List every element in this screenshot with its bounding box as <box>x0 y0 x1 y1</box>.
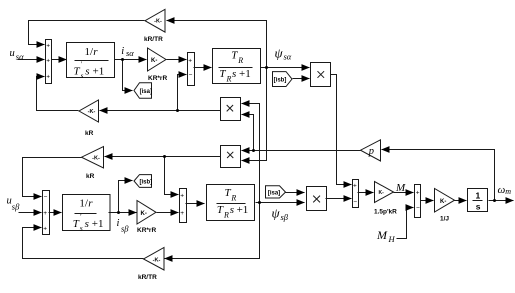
svg-text:[isa]: [isa] <box>268 190 280 196</box>
junction node psi_sb <box>258 201 261 204</box>
wire TF1a output i_sa <box>115 59 147 61</box>
from tag isa <box>266 186 286 198</box>
svg-text:K-: K- <box>151 58 157 64</box>
wire psi_sb up to upper mult <box>242 104 260 203</box>
text upper mult cross <box>227 105 233 111</box>
svg-text:r: r <box>88 197 93 209</box>
svg-text:R: R <box>230 194 236 203</box>
svg-text:s: s <box>85 66 89 78</box>
transfer function TRb <box>207 185 255 221</box>
wire branch to sum2a minus input <box>178 75 187 111</box>
svg-text:R: R <box>226 75 232 84</box>
svg-text:T: T <box>231 49 238 61</box>
junction node omega_m <box>493 199 496 202</box>
svg-text:kR/TR: kR/TR <box>138 274 157 281</box>
multiplier mult1 <box>311 63 331 87</box>
wire i_sa branch down to goto isa <box>123 61 133 91</box>
junction node p omega <box>252 149 255 152</box>
svg-text:s: s <box>476 202 481 212</box>
wire KR*rR beta output to sum2b plus <box>157 212 179 214</box>
wire sum1a output <box>52 59 67 61</box>
junction node i_sa <box>121 58 124 61</box>
junction node lower mult out <box>163 155 166 158</box>
svg-text:K-: K- <box>440 199 446 205</box>
multiplier upper cross <box>221 98 241 121</box>
svg-text:+: + <box>46 58 50 65</box>
wire p omega branch up to upper mult <box>242 115 254 151</box>
svg-text:1/J: 1/J <box>440 216 449 223</box>
wire M_H load input to summech minus <box>397 208 414 239</box>
wire psi_sa output to mult1 <box>261 67 310 69</box>
wire from isb tag to mult1 <box>293 78 310 80</box>
transfer function TF1a <box>67 43 115 78</box>
svg-text:[isa]: [isa] <box>140 89 152 95</box>
sum block sum1a <box>46 40 52 84</box>
wire torque M to summech plus <box>394 192 414 194</box>
goto tag isb <box>134 175 152 188</box>
wire p omega to lower mult <box>242 150 361 152</box>
multiplier lower cross <box>221 146 241 168</box>
svg-text:H: H <box>388 234 396 244</box>
wire psi_sa down to lower mult <box>242 68 267 161</box>
wire TF1b output i_sb <box>109 212 137 214</box>
svg-text:−: − <box>416 205 420 212</box>
svg-text:T: T <box>74 66 81 78</box>
svg-text:−: − <box>44 194 48 201</box>
text lower mult cross <box>227 152 233 158</box>
gain KR*rR beta triangle <box>137 201 156 225</box>
gain p triangle <box>361 140 381 161</box>
svg-text:m: m <box>505 187 511 196</box>
svg-text:ψ: ψ <box>272 206 281 221</box>
wire kR/TR alpha output to sum1a first input <box>29 21 145 45</box>
wire kR alpha output to sum1a third input <box>37 77 79 111</box>
junction node psi_sa <box>265 66 268 69</box>
svg-text:-K-: -K- <box>88 109 96 115</box>
wire kR beta output to sum1b minus <box>23 158 82 197</box>
wire sum1b output <box>49 212 62 214</box>
gain 1.5p'kR triangle <box>375 182 394 203</box>
wire KR*rR alpha output to sum2a plus <box>167 59 187 61</box>
svg-text:R: R <box>223 211 229 220</box>
sum block sumM <box>353 180 359 208</box>
sum block sum1b <box>43 191 50 235</box>
svg-text:+: + <box>46 42 50 49</box>
svg-text:kR/TR: kR/TR <box>144 36 163 43</box>
svg-text:r: r <box>93 46 98 58</box>
gain kR/TR beta triangle <box>144 248 165 271</box>
svg-text:M: M <box>395 182 406 194</box>
wire sumM output <box>358 192 374 194</box>
wire u_sb input <box>19 212 42 214</box>
svg-text:KR*rR: KR*rR <box>148 75 167 82</box>
wire branch down to sum2b first plus <box>165 157 179 195</box>
svg-text:s: s <box>232 68 236 80</box>
wire u_sa input <box>18 59 45 61</box>
wire omega_m output <box>489 200 514 202</box>
wire kR/TR beta output to sum1b third input <box>23 228 144 259</box>
wire mult2 output to sumM minus <box>326 198 352 200</box>
svg-text:kR: kR <box>85 130 94 137</box>
svg-text:s: s <box>230 204 234 216</box>
svg-text:R: R <box>237 56 243 65</box>
svg-text:kR: kR <box>86 173 95 180</box>
svg-text:T: T <box>217 204 224 216</box>
svg-text:T: T <box>73 218 80 230</box>
integrator block 1/s <box>468 189 488 212</box>
wire 1/J output <box>455 200 467 202</box>
wire sum2a output <box>194 67 212 69</box>
gain 1/J triangle <box>435 189 455 213</box>
wire summech output <box>421 200 434 202</box>
svg-text:sα: sα <box>126 48 134 58</box>
svg-text:+1: +1 <box>237 204 249 216</box>
sum block sum2b <box>180 189 187 223</box>
wire omega feedback to p gain <box>382 150 495 201</box>
svg-text:sα: sα <box>16 51 24 61</box>
wire upper mult output to kR alpha gain <box>100 110 221 112</box>
svg-text:+: + <box>416 189 420 196</box>
text mult1 cross <box>318 71 325 78</box>
svg-text:−: − <box>189 72 193 79</box>
wire sum2b output <box>186 203 205 205</box>
svg-text:-K-: -K- <box>153 257 161 263</box>
svg-text:+1: +1 <box>239 68 251 80</box>
wire kR/TR alpha feedback from node psi_sa up and to sum1a <box>167 21 267 68</box>
svg-text:u: u <box>10 48 15 59</box>
transfer function TF1b <box>63 195 111 231</box>
svg-text:+1: +1 <box>93 66 105 78</box>
wire from isa tag to mult2 <box>286 192 305 194</box>
svg-text:s: s <box>85 218 89 230</box>
transfer function TR1a <box>213 49 261 84</box>
wire psi_sb down to kR/TR beta gain <box>165 203 260 259</box>
svg-text:1: 1 <box>476 191 481 201</box>
junction node i_sb <box>117 211 120 214</box>
svg-text:s: s <box>81 71 84 80</box>
wire mult1 output down to sumM plus <box>331 75 352 185</box>
svg-text:K-: K- <box>141 211 147 217</box>
goto tag isa <box>134 83 152 99</box>
sum block summech <box>415 185 421 218</box>
svg-text:M: M <box>376 228 388 242</box>
gain kR beta triangle <box>82 147 104 168</box>
text mult2 cross <box>313 196 320 203</box>
svg-text:sβ: sβ <box>281 212 289 222</box>
gain kR alpha triangle <box>79 100 99 122</box>
svg-text:i: i <box>117 218 120 229</box>
svg-text:KR*rR: KR*rR <box>137 227 156 234</box>
svg-text:-K-: -K- <box>154 19 162 25</box>
svg-text:+: + <box>180 192 184 199</box>
svg-text:+: + <box>180 210 184 217</box>
svg-text:+: + <box>43 226 47 233</box>
svg-text:[isb]: [isb] <box>274 78 287 84</box>
svg-text:+: + <box>46 74 50 81</box>
svg-text:ψ: ψ <box>275 46 284 61</box>
svg-text:1.5p'kR: 1.5p'kR <box>374 209 397 216</box>
svg-text:s: s <box>80 223 83 232</box>
svg-text:[isb]: [isb] <box>139 179 152 185</box>
svg-text:ω: ω <box>498 184 506 196</box>
svg-text:′: ′ <box>80 213 82 221</box>
svg-text:−: − <box>353 198 357 205</box>
svg-text:T: T <box>219 68 226 80</box>
svg-text:K-: K- <box>379 190 385 196</box>
svg-text:p: p <box>368 146 374 157</box>
junction node kR alpha input <box>176 109 179 112</box>
svg-text:′: ′ <box>81 61 83 69</box>
svg-text:sβ: sβ <box>12 202 20 212</box>
gain KR*rR alpha triangle <box>148 48 167 71</box>
svg-text:+1: +1 <box>92 218 104 230</box>
svg-text:i: i <box>121 46 124 57</box>
svg-text:sβ: sβ <box>121 224 129 234</box>
svg-text:sα: sα <box>284 52 292 62</box>
svg-text:+: + <box>43 210 47 217</box>
svg-text:-K-: -K- <box>92 156 100 162</box>
wire i_sb branch up to goto isb <box>119 181 133 213</box>
multiplier mult2 <box>307 187 327 211</box>
gain kR/TR alpha triangle <box>145 9 165 32</box>
wire psi_sb output to mult2 <box>256 202 305 204</box>
svg-text:+: + <box>353 182 357 189</box>
wire lower mult output to kR beta gain <box>105 156 221 158</box>
svg-text:+: + <box>188 58 192 65</box>
sum block sum2a <box>188 53 195 86</box>
from tag isb <box>273 72 293 87</box>
